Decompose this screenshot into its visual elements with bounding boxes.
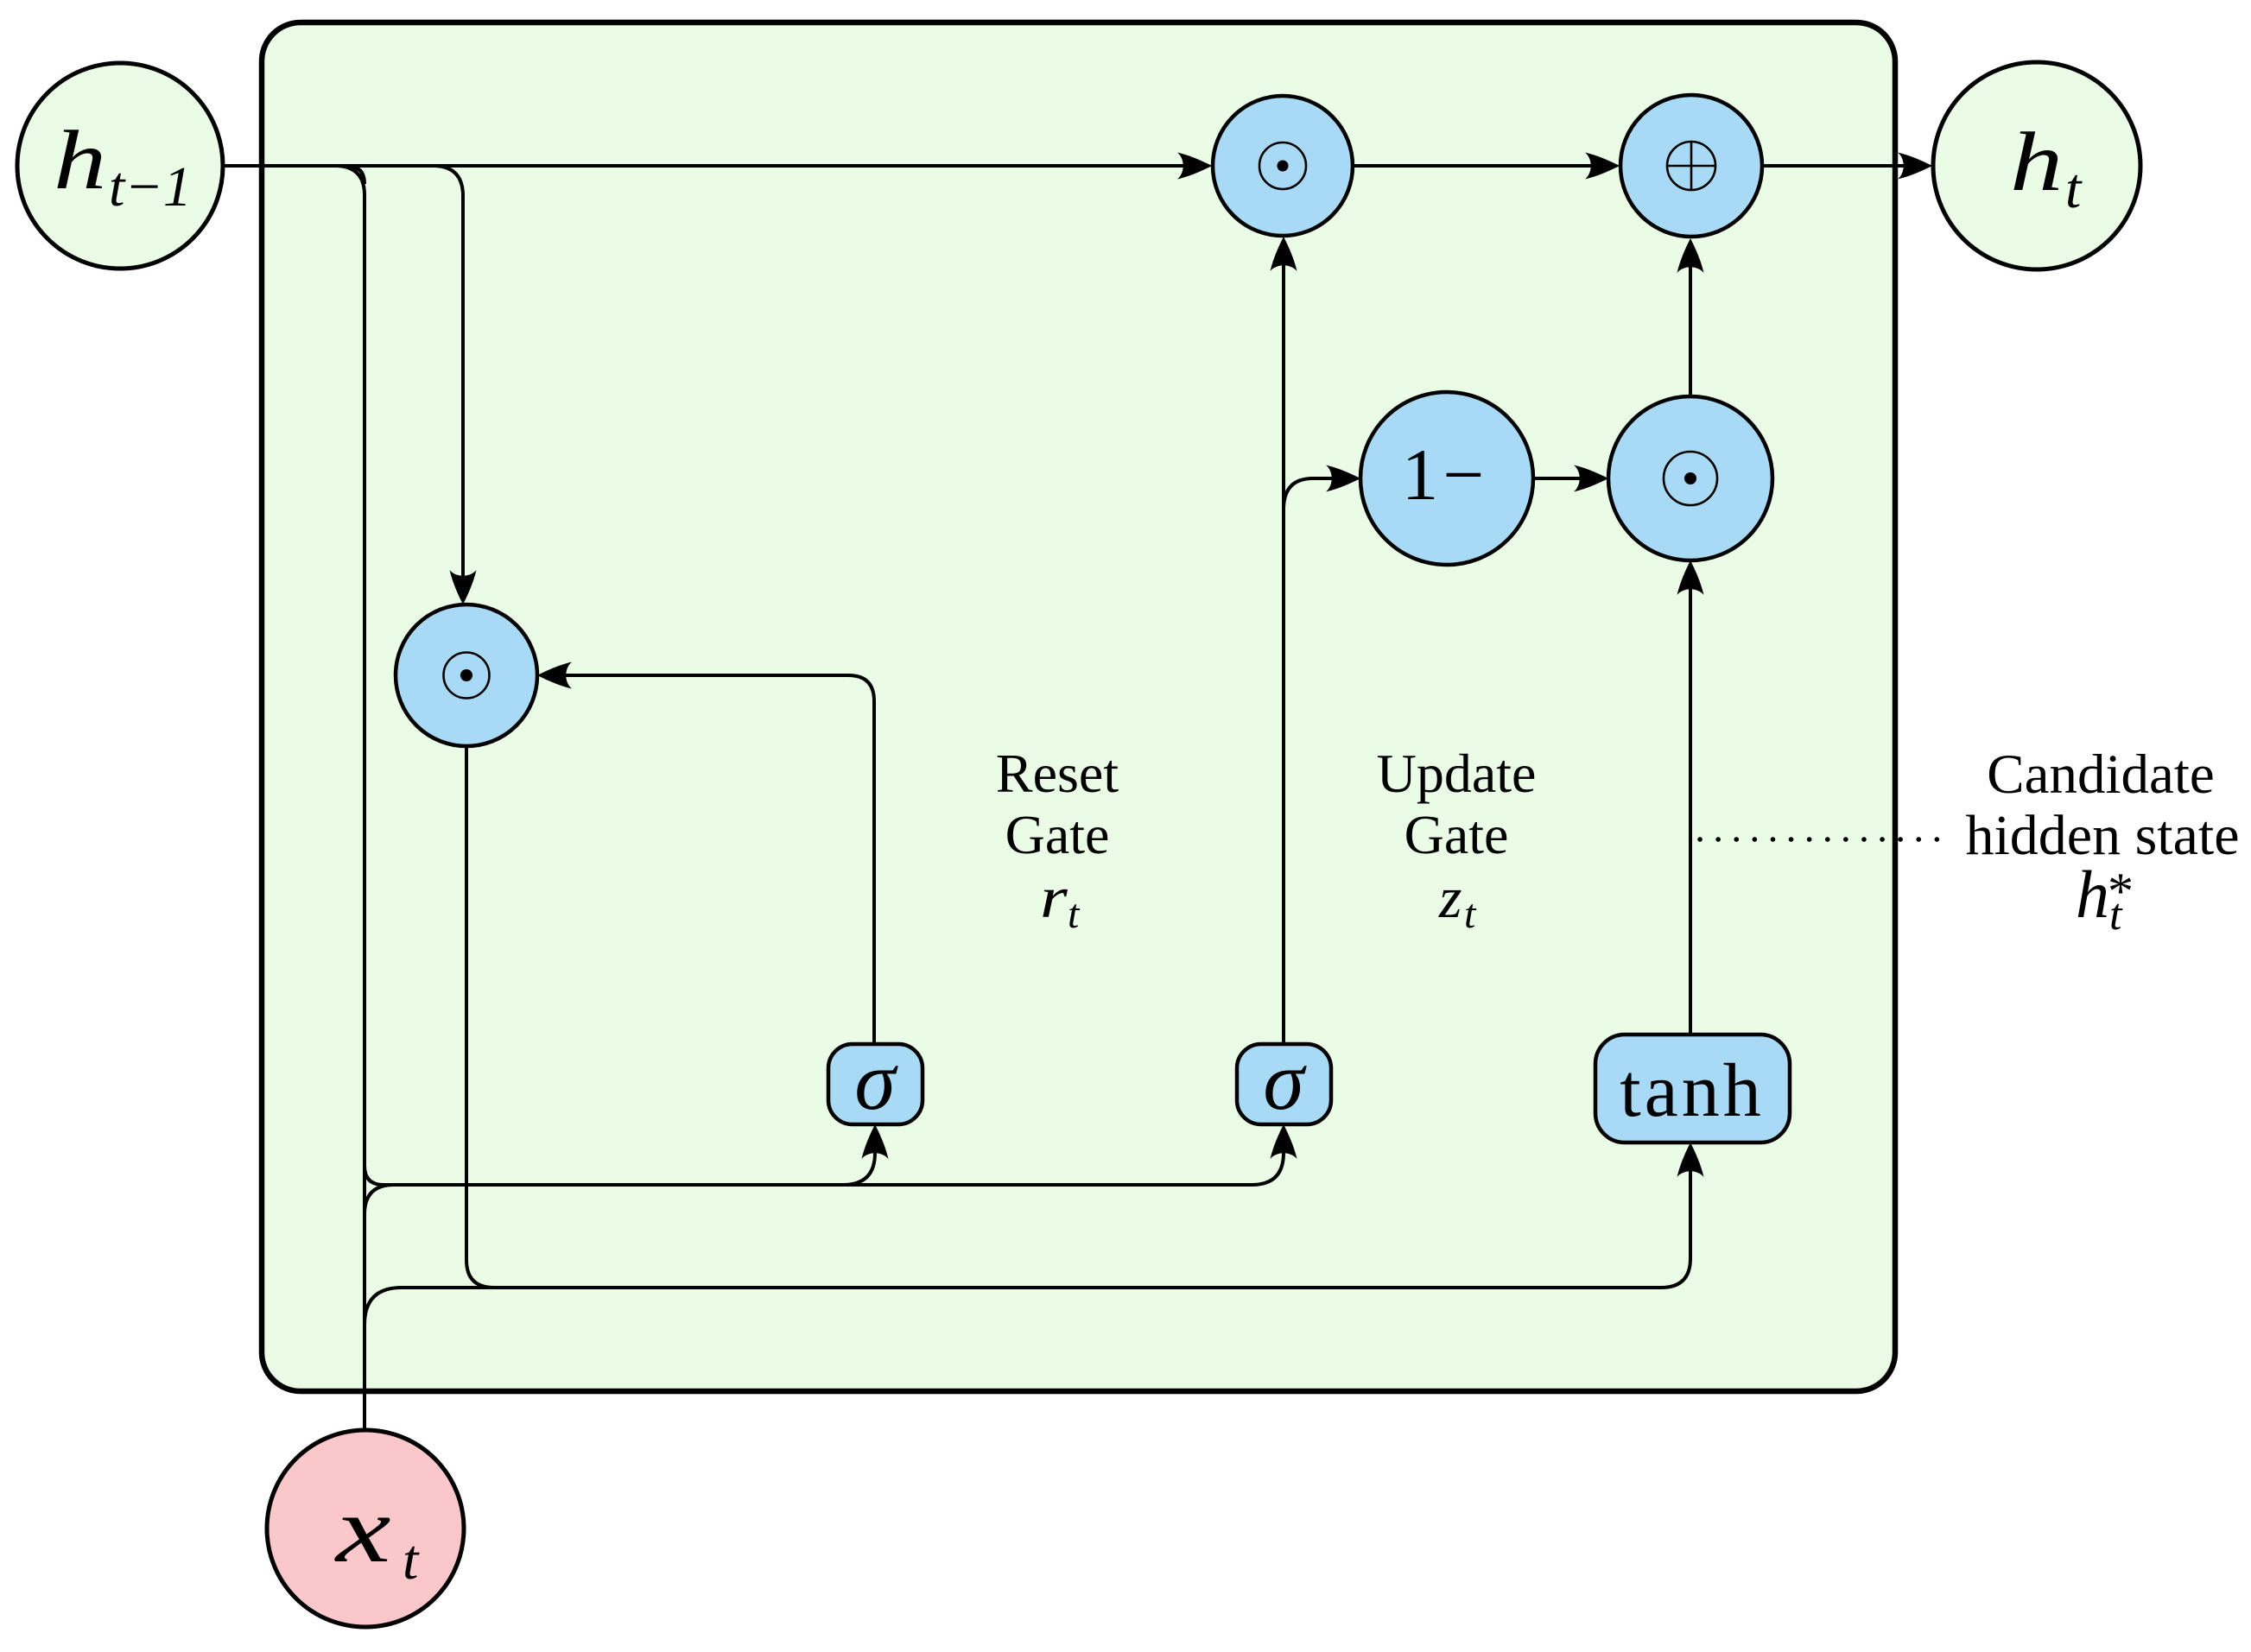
wire curl up into update sigma	[1252, 1133, 1284, 1185]
svg-text:r: r	[1040, 865, 1068, 930]
wire update sigma output up to update-multiply	[1282, 245, 1285, 1044]
label Reset Gate r_t	[996, 743, 1119, 937]
wire 1-minus output to candidate multiply	[1533, 477, 1585, 480]
svg-text:h: h	[54, 113, 106, 207]
wire reset sigma output up then left into reset multiply	[561, 675, 874, 1044]
svg-text:σ: σ	[1263, 1035, 1307, 1127]
arrowhead into h_t	[1898, 153, 1932, 180]
arrowhead into update-multiply from below	[1271, 237, 1297, 271]
arrowhead into reset multiply from right	[537, 662, 572, 689]
svg-text:Gate: Gate	[1404, 804, 1509, 865]
svg-text:Update: Update	[1377, 743, 1537, 804]
update multiply node (Hadamard)	[1213, 96, 1353, 236]
add node	[1620, 95, 1762, 237]
wire H1 horizontal feed to sigma gates	[384, 1183, 1252, 1187]
arrowhead into update sigma	[1271, 1124, 1297, 1159]
wire merge curve from above into H1	[365, 1166, 384, 1185]
arrowhead into update-multiply from left	[1177, 153, 1212, 180]
wire x_t branch curve into H2	[365, 1288, 518, 1325]
arrowhead into candidate multiply from below	[1677, 560, 1704, 595]
svg-text:t: t	[1068, 891, 1081, 937]
wire branch elbow B down at x=536	[433, 166, 463, 580]
reset sigma gate	[828, 1035, 923, 1127]
node h_t-1	[17, 63, 223, 269]
arrowhead into add from below	[1677, 238, 1704, 273]
arrowhead into reset multiply from top	[450, 570, 477, 604]
svg-text:z: z	[1438, 864, 1462, 930]
svg-text:1−: 1−	[1402, 434, 1488, 516]
svg-text:σ: σ	[854, 1035, 898, 1127]
svg-text:tanh: tanh	[1620, 1049, 1765, 1133]
arrowhead into tanh	[1677, 1142, 1704, 1177]
wire branch elbow A down at x=422	[335, 166, 365, 1430]
node x_t input	[267, 1430, 464, 1627]
svg-text:*: *	[2108, 863, 2134, 920]
GRU cell body	[262, 22, 1895, 1391]
label Candidate hidden state h_t*	[1965, 744, 2239, 940]
svg-text:Candidate: Candidate	[1987, 744, 2215, 806]
wire update-multiply output to add	[1354, 164, 1596, 168]
svg-text:t: t	[2065, 157, 2083, 220]
wire candidate multiply output up into add	[1689, 245, 1692, 396]
candidate multiply node	[1608, 396, 1772, 560]
label Update Gate z_t	[1377, 743, 1537, 937]
svg-text:h: h	[2010, 115, 2063, 209]
svg-text:Reset: Reset	[996, 743, 1119, 804]
reset multiply node	[396, 604, 537, 746]
svg-text:t: t	[1464, 891, 1477, 937]
svg-text:Gate: Gate	[1005, 804, 1110, 865]
wire update branch into 1-minus	[1284, 478, 1337, 510]
wire curl up into reset sigma	[843, 1133, 875, 1185]
arrowhead into add from left	[1585, 153, 1620, 180]
wire tanh output up into candidate multiply	[1689, 567, 1692, 1035]
wire branch elbow A inner hook	[346, 166, 365, 184]
arrowhead into 1-minus	[1326, 465, 1360, 492]
wire h(t-1) main line to reset-multiply	[221, 164, 1188, 168]
update sigma gate	[1237, 1035, 1331, 1127]
arrowhead into candidate multiply from left	[1574, 465, 1608, 492]
svg-text:h: h	[2076, 857, 2109, 932]
wire merge curve from below into H1	[365, 1185, 394, 1214]
svg-text:t: t	[403, 1529, 420, 1592]
wire reset multiply output down then right (H2) into tanh	[466, 746, 1690, 1288]
1-minus node	[1360, 392, 1533, 565]
node h_t	[1933, 62, 2140, 269]
svg-text:t−1: t−1	[109, 155, 192, 218]
svg-text:x: x	[334, 1477, 391, 1582]
tanh gate	[1595, 1035, 1790, 1142]
wire add output to h_t	[1763, 164, 1911, 168]
arrowhead into reset sigma	[862, 1124, 889, 1159]
dotted leader line to candidate label	[1700, 837, 1949, 842]
